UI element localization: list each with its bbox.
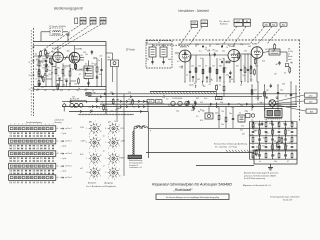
resistor R7 (96, 67, 98, 72)
wire (184, 62, 186, 82)
wire (63, 31, 69, 33)
trimmer capacitor C1 (67, 34, 70, 35)
lower connecting wire (148, 127, 297, 129)
leader line (267, 26, 282, 44)
svg-text:68k: 68k (191, 110, 194, 112)
svg-text:10: 10 (100, 131, 102, 133)
capacitor C4 (51, 64, 53, 65)
svg-text:47: 47 (36, 79, 38, 81)
rotary switch wafer S8 (105, 165, 120, 181)
svg-text:10: 10 (119, 175, 121, 177)
wire (163, 57, 165, 65)
wire (216, 90, 218, 97)
svg-text:3: 3 (95, 179, 96, 181)
wire (233, 62, 235, 82)
bus label box E198a (147, 100, 154, 104)
terminal label box V1 (263, 23, 270, 27)
svg-text:100: 100 (203, 86, 206, 88)
svg-text:1n: 1n (57, 75, 59, 77)
resistor R2 (38, 71, 40, 77)
svg-text:10n: 10n (270, 147, 273, 149)
rotary switch wafer S7 (86, 165, 101, 181)
ground symbol (268, 164, 273, 170)
wire (112, 67, 114, 83)
svg-text:7: 7 (105, 158, 106, 160)
ground bus wire (34, 86, 107, 88)
svg-text:12k: 12k (146, 59, 149, 61)
svg-text:E11: E11 (203, 22, 206, 24)
svg-text:E1: E1 (158, 101, 160, 103)
wire (38, 77, 40, 81)
capacitor C41 (290, 95, 292, 96)
svg-text:„Rudolstadt“: „Rudolstadt“ (173, 188, 193, 192)
svg-text:±4: ±4 (57, 166, 59, 168)
wire (101, 58, 103, 70)
svg-text:220: 220 (231, 107, 234, 109)
oscillator coil L1 dashed box (50, 28, 63, 36)
svg-text:470: 470 (38, 57, 41, 59)
wire wafer feed (123, 94, 125, 176)
leader line (40, 24, 81, 52)
svg-text:100: 100 (72, 61, 75, 63)
svg-text:68k: 68k (282, 83, 285, 85)
svg-text:30: 30 (263, 138, 265, 140)
wire (74, 46, 76, 53)
svg-text:47: 47 (68, 90, 70, 92)
svg-text:5: 5 (108, 178, 109, 180)
svg-text:2k2: 2k2 (288, 130, 291, 132)
svg-text:E27: E27 (237, 21, 240, 23)
leader line (57, 24, 101, 50)
svg-text:1n: 1n (259, 161, 261, 163)
svg-text:12k: 12k (74, 84, 77, 86)
svg-text:Absolute Spannungen gegen M. g: Absolute Spannungen gegen M. gemessen (244, 172, 278, 175)
wire (195, 44, 197, 47)
amp dashed top boundary (146, 39, 300, 41)
svg-text:±5: ±5 (57, 177, 59, 179)
wire (34, 45, 107, 47)
svg-text:220: 220 (94, 63, 97, 65)
svg-text:Drucktastenlagen: Drucktastenlagen (26, 121, 42, 124)
svg-text:4k7: 4k7 (250, 134, 253, 136)
wire (240, 53, 251, 55)
svg-text:0,1: 0,1 (168, 105, 171, 107)
svg-text:5k: 5k (272, 51, 274, 53)
svg-text:470: 470 (54, 61, 57, 63)
svg-text:47: 47 (48, 67, 50, 69)
svg-text:50p: 50p (220, 102, 223, 104)
inner dashed line (153, 44, 189, 46)
svg-text:5n: 5n (158, 42, 160, 44)
wire (38, 56, 40, 61)
svg-text:EC92: EC92 (52, 48, 58, 50)
svg-text:ZF-Kette: ZF-Kette (126, 49, 136, 52)
resistor R22 (244, 68, 246, 73)
svg-text:an Pos.2: an Pos.2 (65, 166, 72, 168)
wire (290, 82, 292, 122)
bus wire a (85, 93, 297, 95)
svg-text:470: 470 (216, 44, 219, 46)
rotary switch wafer S2 (105, 121, 120, 137)
rotary switch wafer S5 (86, 151, 101, 167)
svg-text:5: 5 (86, 142, 87, 144)
IF transformer T2 (149, 47, 156, 57)
svg-text:10n: 10n (76, 90, 79, 92)
wire (62, 63, 64, 69)
svg-text:8µ: 8µ (78, 88, 80, 90)
ZF filter dashed box (146, 41, 172, 69)
svg-text:114: 114 (92, 23, 95, 25)
svg-text:1k: 1k (258, 140, 260, 142)
svg-text:8µ: 8µ (256, 147, 258, 149)
svg-text:Schaltungsänderungen vorbehalt: Schaltungsänderungen vorbehalten (270, 196, 300, 199)
svg-text:10n: 10n (99, 74, 102, 76)
svg-text:10n: 10n (71, 69, 74, 71)
svg-text:4: 4 (100, 139, 101, 141)
svg-text:Stand 4.59: Stand 4.59 (283, 199, 292, 202)
svg-text:7: 7 (86, 158, 87, 160)
svg-text:10n: 10n (250, 79, 253, 81)
wire (93, 57, 97, 59)
control label box stack 3 (100, 18, 106, 25)
svg-text:10n: 10n (242, 75, 245, 77)
svg-text:E198: E198 (120, 157, 126, 159)
wire (96, 78, 98, 87)
svg-text:30: 30 (96, 76, 98, 78)
capacitor (202, 45, 204, 48)
partial label box far left (75, 18, 78, 24)
capacitor C23 (222, 61, 223, 63)
svg-text:E34: E34 (217, 98, 220, 100)
resistor R23 (250, 69, 252, 74)
svg-text:Messung: Messung (55, 122, 62, 124)
wire (189, 73, 191, 83)
wire (59, 79, 61, 87)
svg-text:Allgemeine und Ersatzteile t/: Allgemeine und Ersatzteile t/B u. H (243, 184, 271, 187)
wire (240, 71, 242, 83)
wire (232, 120, 234, 129)
svg-text:a12: a12 (80, 168, 83, 170)
svg-text:220: 220 (262, 61, 265, 63)
svg-text:Ausgang: Ausgang (103, 181, 113, 184)
svg-text:0,5: 0,5 (286, 145, 288, 147)
wire (264, 85, 266, 111)
resistor R4 (55, 69, 57, 74)
terminal square (285, 52, 288, 67)
bus wire f (69, 111, 148, 113)
capacitor C20 (189, 72, 191, 73)
svg-text:3: 3 (114, 179, 115, 181)
svg-text:2k: 2k (29, 62, 31, 64)
label box pair E27 (234, 19, 243, 26)
leader line (233, 26, 246, 46)
svg-text:50p: 50p (215, 113, 218, 115)
svg-text:6m - Typ B Spl. – im Prinzip: 6m - Typ B Spl. – im Prinzip (215, 146, 237, 148)
left block right boundary (105, 42, 107, 115)
wire (250, 73, 252, 82)
svg-text:4k7: 4k7 (42, 68, 45, 70)
svg-text:3: 3 (53, 124, 54, 126)
wire (55, 63, 57, 69)
junction dots (39, 86, 40, 87)
capacitor C22 (247, 70, 249, 71)
svg-text:15n: 15n (212, 66, 215, 68)
coupling coil L3 (111, 60, 119, 67)
wire (223, 82, 225, 86)
leader line (222, 26, 237, 46)
svg-text:8: 8 (100, 145, 101, 147)
wire (218, 120, 220, 129)
svg-text:50p: 50p (110, 111, 113, 113)
terminal box E29 (306, 109, 317, 113)
svg-text:0,1: 0,1 (29, 89, 31, 91)
svg-text:±2: ±2 (57, 141, 59, 143)
svg-text:10n: 10n (262, 145, 265, 147)
leader line (258, 26, 273, 44)
leader line (276, 101, 304, 103)
svg-text:p: p (150, 130, 151, 132)
resistor R25 below bus (216, 85, 218, 90)
outer boundary dashed line (30, 30, 32, 116)
svg-text:300: 300 (105, 110, 108, 112)
svg-text:netz: netz (288, 58, 292, 61)
wire (101, 71, 103, 87)
cap symbol (265, 97, 267, 98)
IF transformer T1 box (84, 66, 93, 79)
svg-text:5k: 5k (99, 107, 101, 109)
svg-text:7: 7 (119, 169, 120, 171)
psu wires horizontal (250, 121, 298, 123)
resistor R30 (218, 115, 220, 120)
wire (225, 122, 227, 129)
svg-text:Leuchtweite o. B.: Leuchtweite o. B. (129, 166, 142, 169)
label box stack E19 (191, 21, 198, 27)
leader line (48, 24, 91, 54)
wire (189, 55, 191, 72)
svg-text:50p: 50p (255, 66, 258, 68)
svg-text:bei 6,3V Batteriespannung: bei 6,3V Batteriespannung (244, 177, 265, 180)
svg-text:0,5: 0,5 (38, 62, 40, 64)
shield top humps (134, 126, 148, 129)
svg-text:5: 5 (26, 124, 27, 126)
amp connector circles (171, 101, 196, 106)
svg-text:12: 12 (95, 135, 97, 137)
control label box stack 2 (90, 18, 96, 25)
wire (195, 55, 197, 82)
wire (45, 56, 47, 61)
svg-text:1: 1 (95, 149, 96, 151)
svg-text:47: 47 (205, 66, 207, 68)
amp dashed right boundary (299, 40, 301, 123)
terminal label box V2 (271, 23, 278, 27)
svg-text:7: 7 (119, 139, 120, 141)
mains transformer Tr1 (265, 109, 282, 118)
amp bottom shield hatched (150, 92, 216, 95)
resistor R40 (251, 90, 253, 95)
wire (256, 58, 258, 82)
svg-text:L2 190: L2 190 (258, 103, 264, 105)
svg-text:7: 7 (114, 149, 115, 151)
choke L2 (205, 113, 213, 119)
bus wire d (100, 103, 297, 105)
svg-text:a5: a5 (103, 136, 105, 138)
svg-text:15n: 15n (221, 124, 224, 126)
svg-text:an Pos.9: an Pos.9 (65, 177, 72, 179)
E198 label and box (120, 155, 142, 159)
svg-text:11: 11 (86, 172, 88, 174)
svg-text:7: 7 (119, 145, 120, 147)
svg-text:30: 30 (146, 42, 148, 44)
svg-text:0,5: 0,5 (166, 98, 168, 100)
svg-text:300: 300 (253, 131, 256, 133)
svg-text:EZ80: EZ80 (252, 43, 258, 45)
svg-text:27-Spule 1000Hz: 27-Spule 1000Hz (49, 26, 66, 28)
wire (152, 57, 154, 65)
svg-text:470: 470 (200, 120, 203, 122)
wire (280, 51, 287, 53)
wire (38, 66, 40, 71)
wire (219, 78, 221, 82)
svg-text:25µ: 25µ (280, 90, 283, 92)
bus wire b (88, 96, 262, 98)
svg-text:3: 3 (114, 165, 115, 167)
wire to psu y152 (146, 152, 254, 154)
wire (218, 107, 220, 116)
psu vertical wires (259, 122, 261, 160)
svg-text:0,5s: 0,5s (204, 98, 207, 100)
tuning capacitor C2 (63, 56, 69, 60)
svg-text:300: 300 (133, 106, 136, 108)
svg-text:300: 300 (60, 90, 63, 92)
svg-text:5k: 5k (36, 69, 38, 71)
svg-text:30: 30 (231, 79, 233, 81)
label box pair E28 (244, 19, 251, 26)
svg-text:Für Service-Analyse nur bei so: Für Service-Analyse nur bei sorgfältiger… (166, 196, 219, 199)
svg-text:13x - Anschl.: 13x - Anschl. (219, 20, 230, 23)
svg-text:15n: 15n (276, 149, 279, 151)
psu wire left (249, 122, 251, 160)
resistor R5 (62, 69, 64, 74)
wire (247, 55, 249, 70)
wire (202, 58, 204, 82)
svg-text:2k2: 2k2 (72, 97, 75, 99)
capacitor (162, 62, 164, 63)
svg-text:25µ: 25µ (240, 44, 243, 46)
bus junction dots (184, 81, 185, 82)
svg-text:9: 9 (100, 161, 101, 163)
wire (257, 82, 259, 101)
filter box on bus (86, 92, 91, 95)
svg-text:2k2: 2k2 (241, 126, 244, 128)
svg-text:4: 4 (89, 178, 90, 180)
svg-text:6k8: 6k8 (283, 144, 286, 146)
tube Ro14 (228, 50, 240, 62)
svg-text:- 4kHz: - 4kHz (120, 141, 125, 143)
svg-text:10: 10 (114, 121, 116, 123)
capacitor C7 (100, 70, 102, 71)
rotary switch wafer S4 (105, 135, 120, 151)
svg-text:300: 300 (291, 123, 294, 125)
terminal label box V3 (280, 23, 287, 27)
wire (232, 107, 234, 119)
connector plug P1 (62, 101, 86, 107)
svg-text:8: 8 (114, 135, 115, 137)
svg-text:5n: 5n (98, 60, 100, 62)
svg-text:1k: 1k (266, 121, 268, 123)
resistor R1 (38, 61, 40, 66)
svg-text:6k8: 6k8 (43, 64, 46, 66)
svg-text:12k: 12k (179, 67, 182, 69)
svg-text:12: 12 (100, 155, 102, 157)
svg-text:68k: 68k (251, 156, 254, 158)
svg-text:112: 112 (82, 23, 85, 25)
svg-text:an Pos.4: an Pos.4 (65, 153, 72, 155)
left block top wire (34, 41, 107, 43)
svg-text:1: 1 (95, 165, 96, 167)
capacitor C3 (45, 61, 47, 62)
svg-text:4: 4 (89, 148, 90, 150)
svg-text:0,1: 0,1 (205, 49, 207, 51)
wire (247, 71, 249, 83)
svg-text:10n: 10n (222, 51, 225, 53)
svg-text:220: 220 (41, 87, 44, 89)
capacitor (151, 62, 153, 63)
wire (63, 107, 65, 111)
svg-text:220: 220 (191, 84, 194, 86)
wire (192, 78, 194, 83)
svg-text:2k2: 2k2 (100, 56, 103, 58)
grid wire (34, 55, 56, 57)
svg-text:10n: 10n (62, 75, 65, 77)
svg-text:12V~: 12V~ (309, 95, 313, 97)
wire (206, 78, 208, 82)
svg-text:12k: 12k (221, 111, 224, 113)
wire (244, 54, 246, 68)
svg-text:0,1: 0,1 (199, 51, 202, 53)
wire (106, 52, 113, 54)
svg-text:8: 8 (108, 134, 109, 136)
svg-text:300: 300 (118, 108, 121, 110)
svg-text:25µ: 25µ (128, 99, 131, 101)
svg-text:Verstärker : Netzteil: Verstärker : Netzteil (178, 9, 209, 13)
label box stack E11 (201, 20, 208, 27)
svg-text:12k: 12k (240, 122, 243, 124)
svg-text:8: 8 (89, 134, 90, 136)
wire (88, 61, 90, 67)
wire (41, 31, 50, 33)
svg-text:6k8: 6k8 (168, 59, 171, 61)
svg-text:11: 11 (108, 164, 110, 166)
left block mini wires (39, 60, 46, 62)
svg-text:7: 7 (95, 121, 96, 123)
svg-text:7: 7 (33, 124, 34, 126)
svg-text:300: 300 (37, 89, 40, 91)
svg-text:68k: 68k (219, 66, 222, 68)
svg-text:15n: 15n (85, 54, 88, 56)
svg-text:2k2: 2k2 (200, 102, 203, 104)
svg-text:5n: 5n (239, 113, 241, 115)
bus wire c (62, 100, 148, 102)
svg-text:5k: 5k (285, 96, 287, 98)
wire (175, 52, 179, 54)
svg-text:50p: 50p (283, 123, 286, 125)
dial lamp L190 (269, 100, 276, 107)
svg-text:25µ: 25µ (266, 133, 269, 135)
wire (271, 106, 273, 108)
terminal box 12V (305, 93, 318, 97)
svg-text:6: 6 (119, 131, 120, 133)
svg-text:an Pos.7: an Pos.7 (65, 128, 72, 130)
